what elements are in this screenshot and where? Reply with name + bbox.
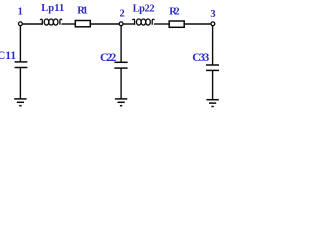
- wire C11 to ground: [19, 68, 21, 99]
- capacitor C22: [114, 62, 127, 68]
- svg-text:Lp11: Lp11: [41, 3, 64, 14]
- wire Lp11 to R1: [62, 23, 76, 25]
- wire node2 to Lp22: [123, 23, 135, 25]
- svg-text:C22: C22: [100, 52, 117, 64]
- wire node1 to Lp11: [22, 23, 42, 25]
- capacitor C11: [15, 62, 28, 68]
- svg-text:3: 3: [210, 9, 215, 20]
- wire Lp22 to R2: [154, 23, 170, 25]
- ground under C22: [115, 99, 127, 106]
- svg-text:C11: C11: [0, 50, 16, 62]
- wire C22 to ground: [120, 68, 122, 99]
- wire node1 down to C11: [19, 26, 21, 62]
- inductor Lp11: [40, 19, 61, 25]
- svg-text:2: 2: [120, 8, 125, 19]
- node 3 terminal: [211, 22, 215, 26]
- svg-text:R1: R1: [77, 6, 88, 17]
- wire R2 to node3: [184, 23, 211, 25]
- svg-text:1: 1: [18, 7, 23, 18]
- wire node3 down to C33: [212, 26, 214, 66]
- node 2 terminal: [119, 22, 123, 26]
- inductor Lp22: [133, 19, 154, 25]
- ground under C33: [206, 100, 218, 107]
- wire R1 to node2: [90, 23, 120, 25]
- wire node2 down to C22: [120, 26, 122, 63]
- svg-text:R2: R2: [169, 6, 179, 17]
- resistor R1: [75, 21, 90, 27]
- svg-text:Lp22: Lp22: [133, 3, 155, 14]
- node 1 terminal: [19, 22, 23, 26]
- ground under C11: [14, 99, 26, 106]
- capacitor C33: [206, 65, 219, 70]
- svg-text:C33: C33: [192, 52, 209, 64]
- wire C33 to ground: [212, 70, 214, 99]
- resistor R2: [169, 21, 184, 27]
